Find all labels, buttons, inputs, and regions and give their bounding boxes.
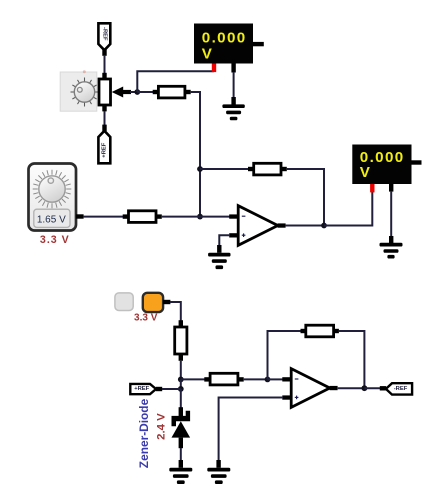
wire M1 negative pin to ground <box>233 72 235 98</box>
wire node H to -REF tag <box>364 387 380 389</box>
wire U2 + input to ground <box>219 398 283 462</box>
net tag +REF (lower left) <box>130 384 181 394</box>
resistor R5 <box>204 373 243 385</box>
ground for M1 <box>222 97 244 120</box>
resistor R1 <box>153 86 191 98</box>
svg-text:-REF: -REF <box>394 386 408 392</box>
wire tag to potentiometer top <box>104 55 106 74</box>
wire U1 + input to ground <box>219 235 230 246</box>
wire R5 to node G <box>244 378 268 380</box>
voltmeter M2 negative pin <box>389 184 393 192</box>
voltmeter M1 negative pin <box>231 64 235 73</box>
wire R2 to node D <box>162 216 200 218</box>
wire node A to resistor R1 <box>137 91 153 93</box>
ground for D1 <box>169 460 192 484</box>
switch square (orange, 3.3 V) <box>143 293 171 312</box>
wire R1 to trunk, trunk down to node D <box>191 92 200 217</box>
wire R4 to node E <box>180 361 182 380</box>
svg-text:2.4 V: 2.4 V <box>156 413 168 440</box>
wire node A up to voltmeter M1 <box>137 71 214 92</box>
net tag -REF (lower right) <box>380 383 412 394</box>
wire R3 to output riser <box>287 169 324 226</box>
wire feedback riser node G to R6 <box>268 331 301 379</box>
voltmeter M2 positive pin (red) <box>370 184 374 192</box>
op-amp U1 <box>229 206 285 246</box>
svg-text:1.65 V: 1.65 V <box>37 214 66 225</box>
indicator square (gray) <box>115 293 133 311</box>
wire switch to resistor R4 <box>170 302 181 321</box>
zener diode D1 <box>172 389 191 461</box>
svg-text:+REF: +REF <box>101 142 107 157</box>
wire wiper to node A <box>130 91 138 93</box>
wire node C to voltmeter M2 positive pin <box>324 192 372 226</box>
resistor R2 <box>123 211 162 223</box>
wire U1 output to node C <box>286 225 324 227</box>
resistor R3 (feedback) <box>248 163 287 175</box>
svg-text:V: V <box>360 164 371 181</box>
node E junction <box>178 377 184 383</box>
node B junction <box>197 166 203 172</box>
wire node D to op-amp U1 inverting input <box>200 216 230 218</box>
svg-text:V: V <box>202 46 213 63</box>
net tag -REF (top) <box>98 23 110 56</box>
ground for U2 <box>207 460 230 484</box>
svg-text:3.3 V: 3.3 V <box>40 234 70 246</box>
svg-text:0.000: 0.000 <box>202 29 247 46</box>
op-amp U2 <box>282 369 337 408</box>
node C junction <box>321 223 327 229</box>
svg-text:3.3 V: 3.3 V <box>134 313 158 324</box>
voltmeter M2 <box>352 145 421 185</box>
wire node E to node F <box>180 379 182 389</box>
svg-text:-REF: -REF <box>101 27 107 41</box>
wire node B to feedback resistor R3 <box>200 168 249 170</box>
node A junction <box>134 89 140 95</box>
voltmeter M1 <box>194 24 264 64</box>
resistor R4 (vertical) <box>175 320 187 361</box>
ground for U1 <box>208 245 230 269</box>
wire node G to op-amp U2 inverting input <box>268 378 284 380</box>
knob icon of potentiometer <box>60 70 98 111</box>
net tag +REF (below potentiometer) <box>98 111 110 163</box>
potentiometer P1 <box>99 73 131 112</box>
node F junction <box>178 386 184 392</box>
ground for M2 <box>380 236 403 259</box>
node D junction <box>197 214 203 220</box>
svg-text:+REF: +REF <box>134 386 149 392</box>
voltage source VS1 (knob instrument 1.65 V) <box>29 164 84 231</box>
node G junction <box>265 377 271 383</box>
resistor R6 (feedback) <box>301 325 339 337</box>
wire node E to resistor R5 <box>181 378 205 380</box>
node H junction <box>362 385 368 391</box>
wire M2 negative pin to ground <box>390 191 392 237</box>
wire VS1 to resistor R2 <box>84 216 123 218</box>
wire U2 output to node H <box>338 387 365 389</box>
voltmeter M1 positive pin (red) <box>212 64 216 73</box>
wire R6 to node H <box>339 331 365 388</box>
svg-text:Zener-Diode: Zener-Diode <box>137 398 151 468</box>
